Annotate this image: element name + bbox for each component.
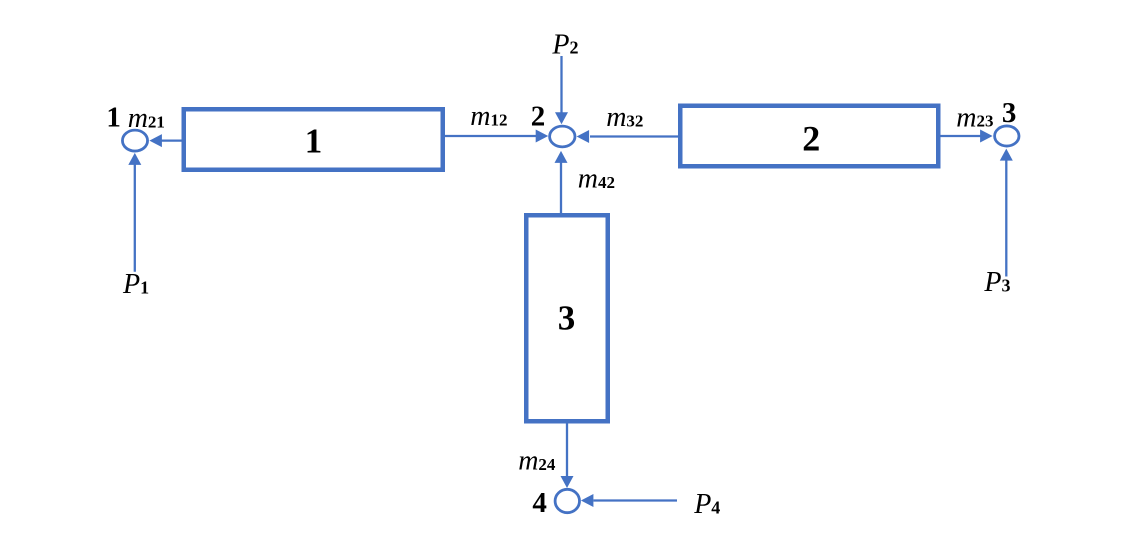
svg-text:m24: m24 — [518, 446, 556, 477]
process box 3 — [526, 215, 608, 421]
node 3 — [995, 126, 1019, 146]
process box 1 — [184, 109, 443, 170]
svg-text:m21: m21 — [128, 103, 165, 134]
svg-text:1: 1 — [305, 121, 323, 160]
svg-text:4: 4 — [532, 487, 547, 519]
wire P3 arrow: into node 3 from below — [1000, 149, 1013, 277]
wire m21 arrow: box 1 to node 1 — [149, 134, 181, 147]
process box 2 — [680, 106, 938, 167]
svg-text:3: 3 — [558, 299, 576, 338]
wire P2 arrow: into node 2 from above — [555, 56, 568, 124]
svg-text:m42: m42 — [578, 164, 615, 195]
wire m42 arrow: box 3 to node 2 — [555, 151, 568, 215]
wire P1 arrow: into node 1 from below — [128, 153, 141, 272]
svg-text:3: 3 — [1002, 97, 1017, 129]
node 4 — [555, 489, 579, 512]
svg-text:m23: m23 — [956, 102, 993, 133]
svg-text:2: 2 — [531, 101, 546, 133]
wire m32 arrow: box 2 to node 2 — [577, 130, 678, 143]
wire m24 arrow: box 3 to node 4 — [561, 424, 574, 489]
node 2 — [550, 126, 575, 147]
svg-text:P2: P2 — [551, 29, 578, 60]
wire m23 arrow: box 2 to node 3 — [941, 130, 993, 143]
svg-text:2: 2 — [802, 118, 820, 158]
node 1 — [122, 130, 147, 151]
svg-text:m32: m32 — [606, 102, 643, 133]
svg-text:m12: m12 — [470, 101, 507, 132]
svg-text:P1: P1 — [122, 269, 149, 300]
wire P4 arrow: into node 4 from right — [581, 494, 677, 507]
svg-text:P4: P4 — [693, 489, 720, 520]
wire m12 arrow: box 1 to node 2 — [445, 130, 548, 143]
svg-text:1: 1 — [106, 102, 121, 134]
